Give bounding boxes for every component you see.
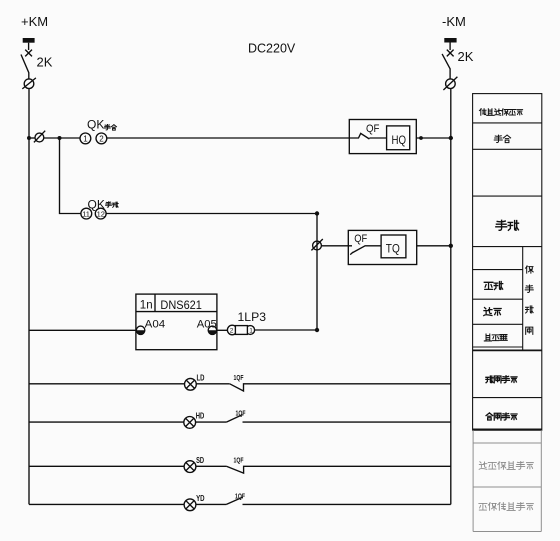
wire <box>196 383 229 385</box>
svg-text:2: 2 <box>230 328 234 335</box>
relay coil TQ <box>381 235 406 258</box>
node junction <box>449 244 453 248</box>
lamp YD row wire <box>29 503 184 505</box>
node junction <box>58 136 62 140</box>
svg-text:-KM: -KM <box>442 14 466 29</box>
label 手跳 small <box>106 202 112 207</box>
wire <box>255 329 317 331</box>
wire <box>196 465 227 467</box>
wire right rail <box>450 89 452 505</box>
switch QF contact <box>349 133 386 139</box>
wire <box>217 329 227 331</box>
svg-text:QF: QF <box>366 123 380 135</box>
relay box QF-TQ outer <box>348 230 416 264</box>
wire <box>28 43 30 50</box>
svg-text:QF: QF <box>354 233 367 245</box>
relay device DNS621 box <box>136 294 217 350</box>
legend table black part <box>473 94 542 431</box>
svg-text:1QF: 1QF <box>236 408 246 417</box>
switch QK contact 1 <box>80 133 91 144</box>
switch QK contact 2 <box>96 133 107 144</box>
svg-text:HD: HD <box>196 412 205 421</box>
svg-text:QK: QK <box>88 198 105 212</box>
wire <box>106 213 317 215</box>
wire left rail <box>28 89 30 505</box>
label 跳闸指示 bold <box>486 376 517 383</box>
svg-text:YD: YD <box>196 494 205 503</box>
node junction right rail top <box>449 136 453 140</box>
label 装置操作电源 <box>479 109 522 116</box>
switch 2K left blade <box>25 50 32 57</box>
node junction left <box>27 136 31 140</box>
relay box QF-HQ outer <box>349 120 416 154</box>
terminal circle TQ branch <box>313 241 322 250</box>
label 手跳 <box>496 220 519 230</box>
wire <box>44 137 80 139</box>
lamp LD <box>185 378 197 390</box>
terminal A05 <box>208 326 216 334</box>
fuse 2K left body <box>23 38 35 43</box>
label 试验位置指示 grey <box>479 461 533 469</box>
label 手合 small <box>104 125 110 130</box>
svg-text:1QF: 1QF <box>235 491 245 500</box>
node junction <box>315 328 319 332</box>
svg-text:DC220V: DC220V <box>248 42 296 56</box>
wire <box>417 245 451 247</box>
svg-text:1LP3: 1LP3 <box>238 310 267 324</box>
node dot <box>419 136 423 140</box>
wire <box>321 245 348 247</box>
relay coil HQ <box>387 126 410 150</box>
node junction <box>315 211 319 215</box>
wire <box>196 503 227 505</box>
svg-text:2K: 2K <box>458 49 474 64</box>
switch 1QF closed contact <box>230 384 451 391</box>
lamp LD row wire <box>29 383 185 385</box>
lamp HD row wire <box>29 421 184 423</box>
fuse 2K right body <box>444 38 456 43</box>
wire to DNS621 <box>29 329 136 331</box>
svg-text:1: 1 <box>83 135 88 144</box>
label 合闸指示 bold <box>486 413 517 420</box>
terminal circle left <box>24 79 34 89</box>
svg-text:1QF: 1QF <box>234 455 244 464</box>
svg-text:DNS621: DNS621 <box>160 300 202 312</box>
svg-text:A05: A05 <box>197 318 217 330</box>
svg-text:TQ: TQ <box>386 242 400 256</box>
switch QK contact 11 <box>81 208 92 219</box>
switch 2K right blade <box>447 50 454 57</box>
lamp SD row wire <box>29 465 184 467</box>
svg-text:HQ: HQ <box>392 133 407 147</box>
svg-text:1QF: 1QF <box>234 373 244 382</box>
wire <box>449 43 451 51</box>
lamp SD <box>184 461 196 473</box>
switch 1QF open contact <box>226 497 450 504</box>
svg-text:1n: 1n <box>140 300 153 312</box>
svg-text:LD: LD <box>197 374 205 383</box>
switch 1QF open contact <box>226 415 450 423</box>
svg-text:2K: 2K <box>37 55 53 70</box>
switch 1QF closed contact <box>226 466 450 473</box>
label 工作位置指示 grey <box>479 502 533 510</box>
label 差动 <box>484 282 502 290</box>
wire vertical <box>316 214 318 331</box>
label 非电量 <box>484 334 507 341</box>
svg-text:QK: QK <box>87 118 104 132</box>
wire <box>107 137 349 139</box>
lamp YD <box>184 499 196 511</box>
label 过流 <box>484 308 501 316</box>
legend table grey part <box>473 430 541 531</box>
link 1LP3 <box>227 325 237 335</box>
label 保护跳闸 vertical <box>525 266 533 334</box>
lamp HD <box>184 417 196 429</box>
svg-text:A04: A04 <box>145 318 166 330</box>
terminal circle row1 <box>31 137 35 139</box>
label 手合 <box>494 135 510 143</box>
svg-text:+KM: +KM <box>21 14 48 29</box>
wire <box>416 137 451 139</box>
svg-text:SD: SD <box>196 456 204 465</box>
switch QK contact 12 <box>95 208 106 219</box>
terminal A04 <box>136 326 144 334</box>
svg-text:2: 2 <box>99 135 104 144</box>
wire <box>196 421 227 423</box>
svg-text:1: 1 <box>249 328 253 335</box>
wire branch down <box>60 138 81 214</box>
switch QF contact <box>348 246 381 255</box>
terminal circle right <box>446 79 456 89</box>
